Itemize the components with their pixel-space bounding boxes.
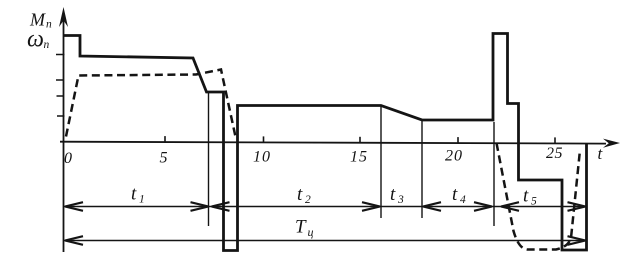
arrow t1 left bbox=[65, 202, 83, 211]
arrow t5 left bbox=[501, 202, 519, 211]
arrow t1 right bbox=[191, 202, 209, 211]
arrow t4 right bbox=[474, 202, 492, 211]
solid curve M(t) bbox=[64, 34, 587, 251]
svg-text:2: 2 bbox=[305, 194, 311, 206]
arrow Tc right bbox=[568, 236, 586, 245]
dashed curve omega(t) end section bbox=[497, 143, 581, 250]
extension line t3/t4 boundary bbox=[421, 121, 423, 218]
extension line t4/t5 boundary bbox=[493, 122, 495, 226]
dashed curve omega(t) start section bbox=[66, 70, 236, 140]
arrow t2 right bbox=[362, 202, 380, 211]
y-axis tick y=54 bbox=[56, 54, 65, 56]
svg-text:T: T bbox=[295, 217, 307, 238]
svg-text:10: 10 bbox=[253, 149, 271, 166]
dimension line t-row bbox=[64, 206, 586, 208]
svg-text:п: п bbox=[44, 39, 50, 51]
x-axis bbox=[60, 142, 606, 144]
x-axis tick 20 bbox=[457, 137, 459, 143]
x-axis tick 5 bbox=[164, 136, 166, 142]
svg-text:0: 0 bbox=[64, 150, 72, 167]
svg-text:5: 5 bbox=[531, 196, 537, 208]
svg-text:t: t bbox=[452, 184, 458, 205]
svg-text:3: 3 bbox=[397, 194, 404, 206]
x-axis arrowhead bbox=[603, 139, 620, 148]
svg-text:20: 20 bbox=[445, 148, 463, 165]
svg-text:t: t bbox=[598, 144, 604, 163]
svg-text:25: 25 bbox=[546, 145, 563, 162]
svg-text:5: 5 bbox=[160, 150, 168, 167]
svg-text:1: 1 bbox=[139, 194, 145, 206]
svg-text:t: t bbox=[297, 184, 303, 205]
svg-text:ц: ц bbox=[308, 225, 314, 239]
svg-text:15: 15 bbox=[350, 149, 368, 166]
svg-text:4: 4 bbox=[460, 194, 466, 206]
y-axis tick y=96 bbox=[57, 95, 65, 97]
arrow t5 right bbox=[568, 202, 586, 211]
svg-text:t: t bbox=[131, 184, 137, 205]
y-axis arrowhead bbox=[59, 7, 68, 27]
y-axis tick y=116 bbox=[57, 115, 65, 117]
arrow Tc left bbox=[65, 236, 83, 245]
extension line t1/t2 boundary bbox=[208, 91, 210, 226]
svg-text:t: t bbox=[523, 186, 529, 207]
extension line t2/t3 boundary bbox=[380, 106, 382, 218]
svg-text:ω: ω bbox=[27, 27, 44, 53]
x-axis tick 10 bbox=[263, 136, 265, 142]
dimension line Tc-row bbox=[64, 240, 586, 242]
y-axis bbox=[63, 12, 65, 252]
x-axis tick 25 bbox=[554, 137, 556, 143]
x-axis tick 15 bbox=[359, 137, 361, 143]
y-axis tick y=80 bbox=[56, 79, 64, 81]
svg-text:п: п bbox=[46, 19, 52, 31]
svg-text:t: t bbox=[390, 184, 396, 205]
arrow t4 left bbox=[423, 202, 441, 211]
arrow t2 left bbox=[212, 202, 230, 211]
